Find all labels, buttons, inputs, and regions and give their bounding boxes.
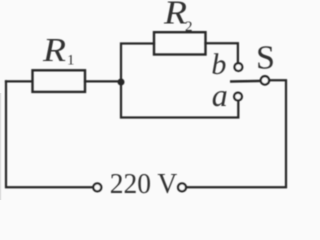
svg-text:2: 2 (185, 19, 193, 35)
svg-text:220 V: 220 V (110, 168, 178, 200)
svg-text:a: a (212, 77, 228, 113)
svg-text:R: R (42, 32, 66, 69)
svg-text:1: 1 (67, 53, 75, 69)
svg-text:R: R (163, 0, 187, 32)
svg-text:S: S (256, 40, 275, 77)
